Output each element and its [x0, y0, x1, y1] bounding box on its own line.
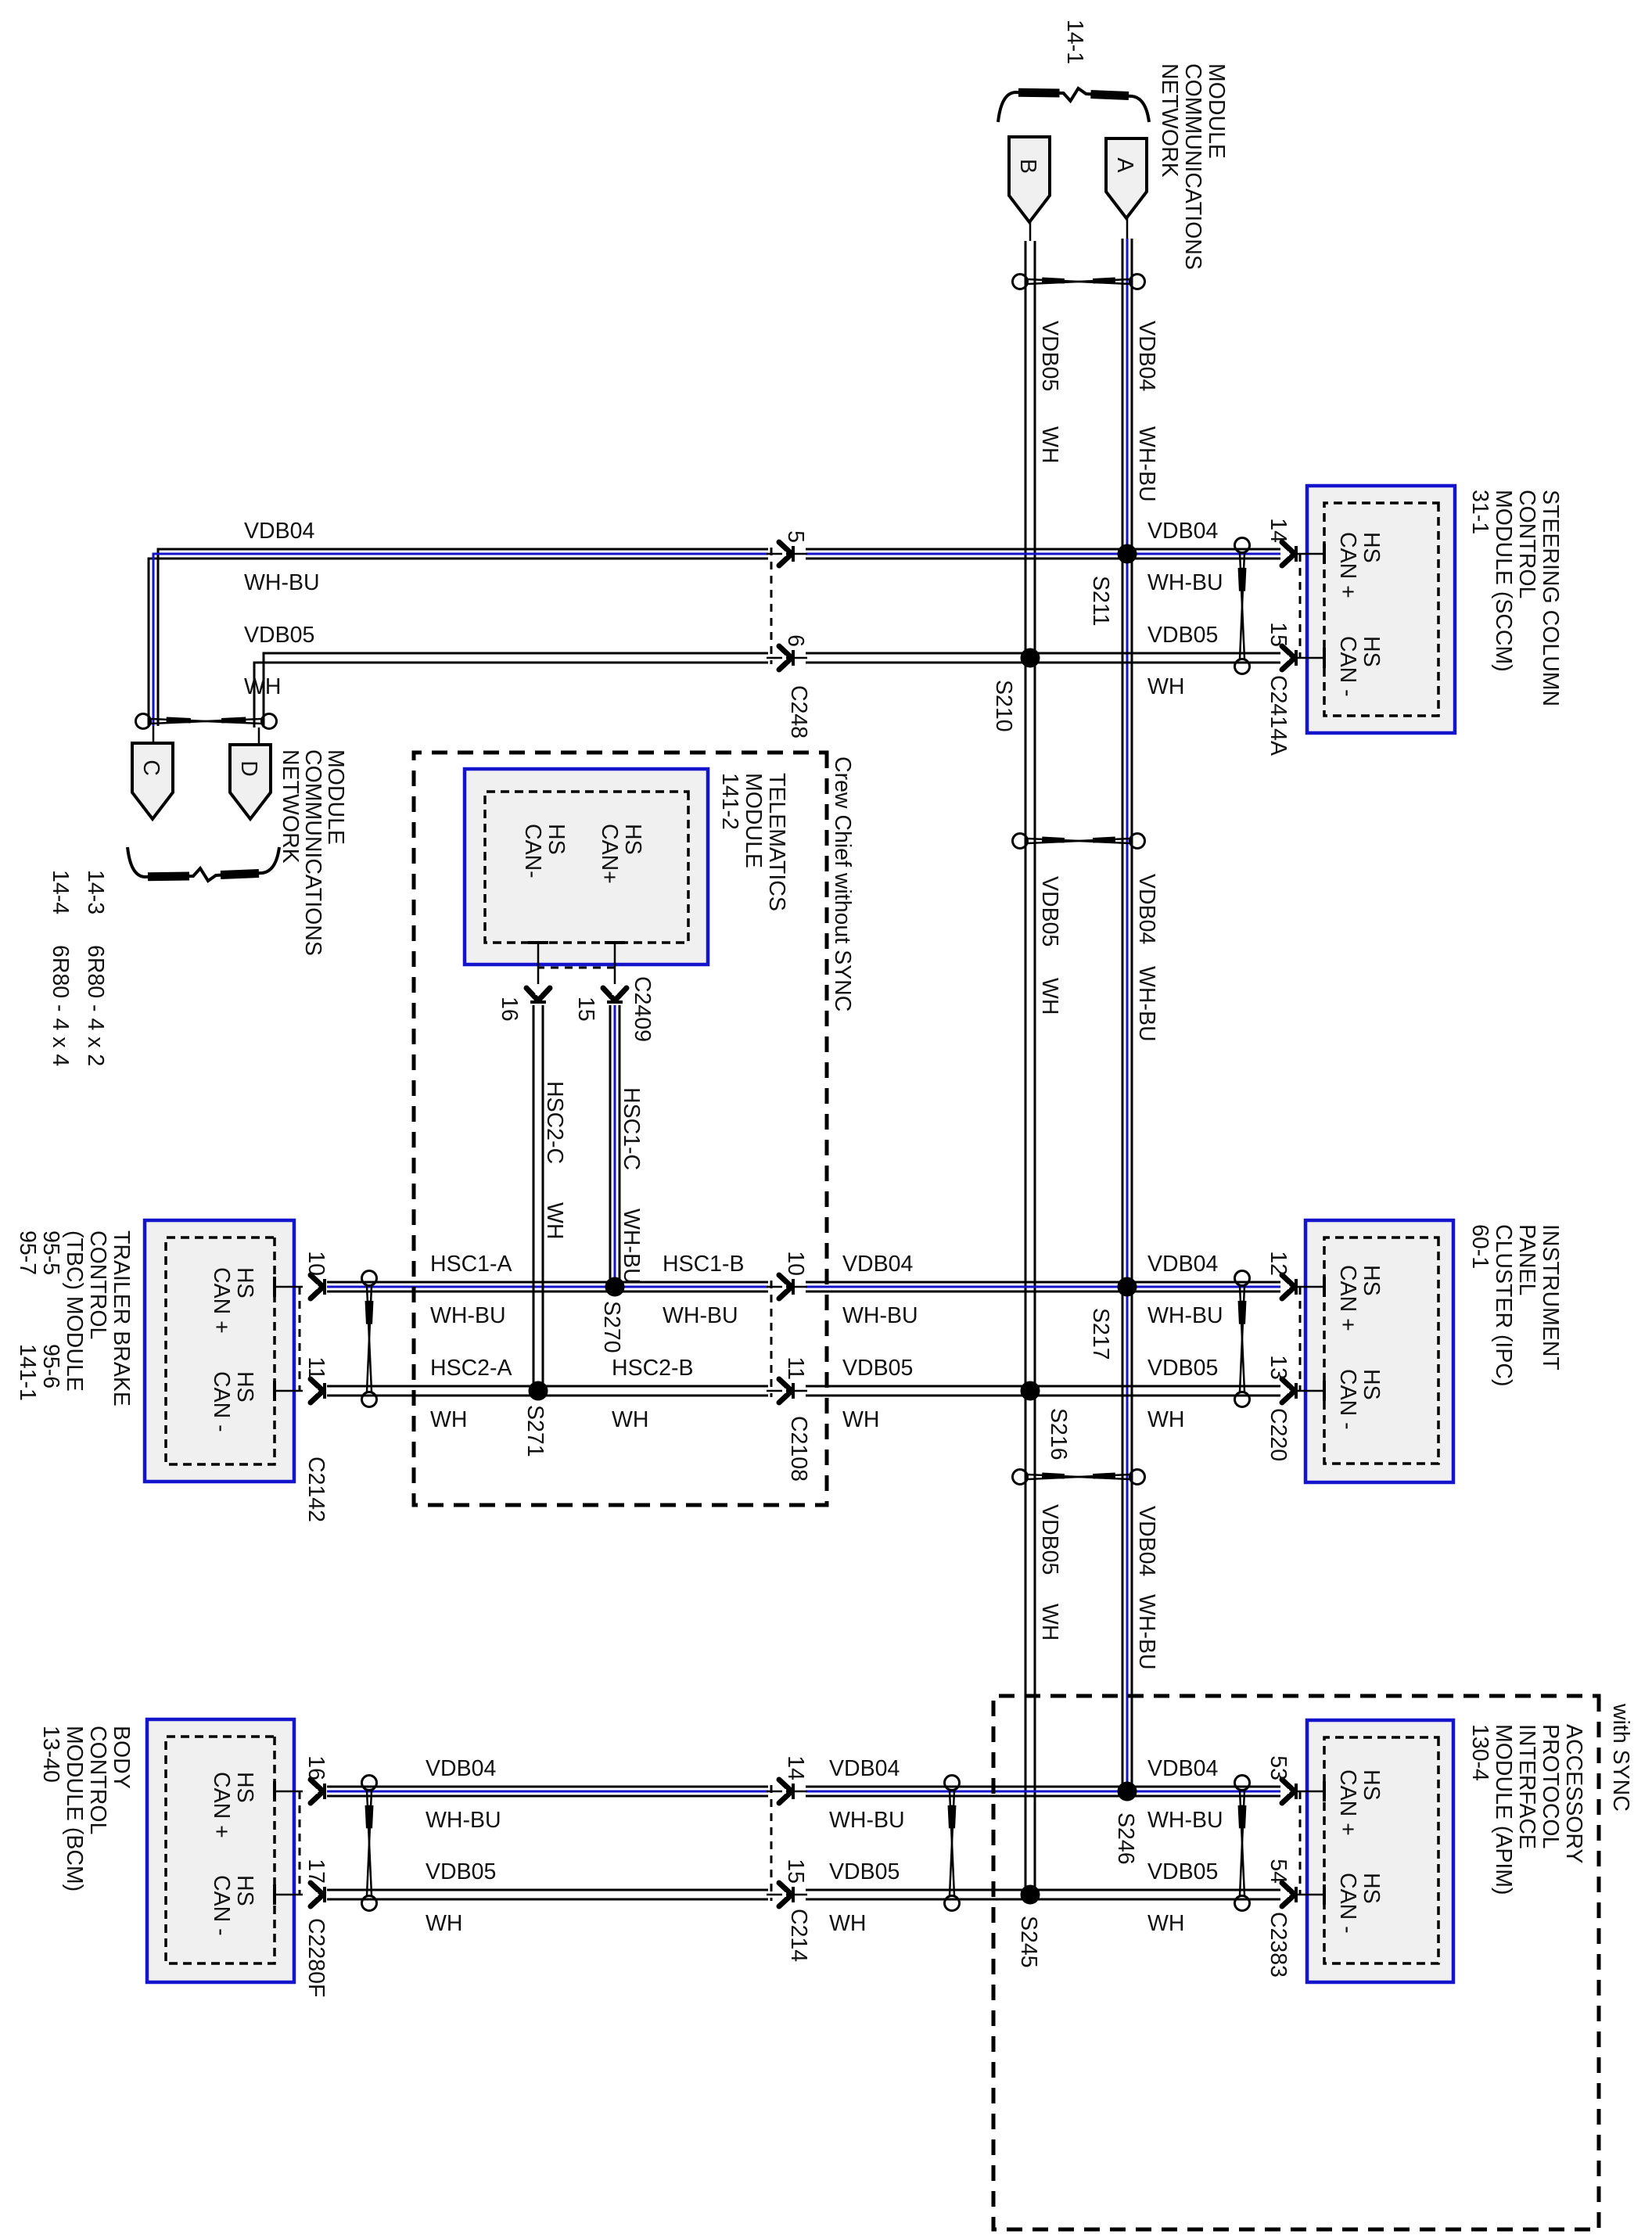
- svg-text:60-1: 60-1: [1467, 1224, 1492, 1269]
- svg-text:HSC1-B: HSC1-B: [663, 1252, 745, 1277]
- svg-text:C214: C214: [786, 1909, 811, 1962]
- label IPC HS CAN+: [1335, 1265, 1384, 1331]
- svg-text:HS: HS: [1359, 1769, 1384, 1801]
- junction S216: [1021, 1381, 1040, 1401]
- dashed box Crew Chief without SYNC: [414, 753, 827, 1505]
- svg-text:VDB05: VDB05: [1147, 1859, 1218, 1884]
- offpage connector C: [132, 743, 173, 819]
- svg-text:WH-BU: WH-BU: [1147, 1303, 1223, 1328]
- label TBC title: [15, 1230, 134, 1406]
- svg-text:with SYNC: with SYNC: [1608, 1703, 1633, 1812]
- twisted pair symbol SCCM taps: [1235, 538, 1250, 674]
- svg-text:WH-BU: WH-BU: [663, 1303, 738, 1328]
- label Crew Chief without SYNC: [830, 756, 855, 1011]
- label IPC title: [1467, 1224, 1563, 1386]
- label S216: [1046, 1408, 1071, 1460]
- twisted pair symbol APIM taps: [1235, 1776, 1250, 1911]
- svg-text:CAN +: CAN +: [1335, 1265, 1360, 1331]
- svg-text:HS: HS: [232, 1875, 257, 1906]
- twisted pair symbol IPC taps: [1235, 1271, 1250, 1407]
- label VDB05 WH SCCM tap upper: [1147, 623, 1218, 699]
- wire VDB04 vertical APIM pin53 to BCM pin16: [327, 1787, 1280, 1796]
- svg-text:PANEL: PANEL: [1514, 1224, 1539, 1295]
- label pin 15 SCCM: [1266, 622, 1291, 647]
- pin arrow IPC x1645: [1282, 1275, 1296, 1299]
- connector line C220: [1299, 1287, 1302, 1391]
- pin stub TBC x1778: [275, 1381, 303, 1401]
- svg-text:CAN-: CAN-: [520, 824, 545, 878]
- svg-text:HSC2-B: HSC2-B: [612, 1356, 694, 1381]
- svg-text:5: 5: [783, 530, 808, 543]
- label Telematics title: [717, 773, 789, 911]
- label module communications network top: [1157, 63, 1229, 270]
- svg-text:VDB05: VDB05: [1037, 1504, 1062, 1575]
- svg-text:14-4: 14-4: [48, 870, 73, 914]
- label HSC2-B WH segment C2108-S271: [612, 1356, 694, 1432]
- label VDB04 WH-BU segment C214-BCM: [426, 1756, 501, 1833]
- label S210: [991, 680, 1016, 732]
- svg-text:CLUSTER (IPC): CLUSTER (IPC): [1491, 1224, 1516, 1386]
- twisted pair symbol before C/D: [136, 714, 277, 729]
- svg-text:95-5: 95-5: [38, 1230, 63, 1275]
- connector line C214: [770, 1785, 773, 1901]
- pin arrow SCCM x841: [1282, 646, 1296, 670]
- module Telematics box: [465, 769, 708, 965]
- svg-text:S270: S270: [599, 1301, 624, 1353]
- svg-text:54: 54: [1266, 1859, 1291, 1884]
- twisted pair symbol buses after S217/S216: [1013, 1470, 1145, 1485]
- label pin 5 C248: [783, 530, 808, 543]
- harness brace at C/D: [127, 847, 279, 881]
- pin gap C248 x841: [767, 651, 807, 665]
- label VDB04 WH-BU segment S217-S246: [1134, 1506, 1159, 1670]
- harness brace at A/B: [998, 88, 1149, 122]
- pin arrow C214 x2422: [779, 1883, 793, 1906]
- svg-text:WH-BU: WH-BU: [244, 570, 320, 595]
- svg-text:NETWORK: NETWORK: [278, 749, 303, 864]
- svg-text:VDB05: VDB05: [842, 1356, 913, 1381]
- wire stub at A: [1126, 218, 1129, 239]
- label pin 11 C2108: [783, 1356, 808, 1380]
- label pin 14 SCCM: [1266, 518, 1291, 543]
- svg-text:WH-BU: WH-BU: [1147, 1808, 1223, 1833]
- offpage connector A: [1106, 138, 1147, 218]
- pin arrow C2108 x1778: [779, 1379, 793, 1403]
- twisted pair symbol TBC taps: [362, 1271, 377, 1407]
- svg-text:VDB05: VDB05: [1147, 623, 1218, 648]
- wire stub at B: [1029, 222, 1032, 241]
- pin arrow C214 x2290: [779, 1780, 793, 1803]
- svg-text:C2409: C2409: [630, 976, 655, 1042]
- svg-text:HSC2-A: HSC2-A: [430, 1356, 512, 1381]
- svg-text:10: 10: [303, 1251, 329, 1276]
- svg-text:B: B: [1015, 159, 1040, 174]
- label C214: [786, 1909, 811, 1962]
- svg-text:VDB05: VDB05: [1037, 876, 1062, 947]
- svg-text:95-6: 95-6: [38, 1344, 63, 1388]
- pin stub APIM x2422: [1295, 1884, 1324, 1905]
- svg-text:C2280F: C2280F: [303, 1918, 329, 1997]
- wire HSC2 vertical IPC pin13 to TBC pin11: [327, 1386, 1280, 1396]
- svg-text:WH: WH: [542, 1202, 567, 1239]
- twisted pair symbol buses mid: [1013, 834, 1145, 849]
- svg-text:C2142: C2142: [303, 1457, 329, 1522]
- pin arrow SCCM x708: [1282, 542, 1296, 566]
- svg-text:S211: S211: [1088, 576, 1113, 626]
- svg-text:MODULE: MODULE: [1204, 63, 1229, 159]
- dashed box with SYNC: [993, 1696, 1599, 2229]
- svg-text:VDB05: VDB05: [426, 1859, 496, 1884]
- connector line C2409: [538, 967, 615, 969]
- label APIM title: [1467, 1724, 1586, 1895]
- junction S245: [1021, 1885, 1040, 1905]
- svg-text:CAN -: CAN -: [1335, 1369, 1360, 1430]
- svg-text:CAN -: CAN -: [1335, 1873, 1360, 1934]
- wire HSC1-C telematics pin15 to S270: [610, 1005, 619, 1287]
- svg-text:141-2: 141-2: [717, 773, 742, 830]
- svg-text:C: C: [138, 760, 163, 776]
- svg-text:WH: WH: [842, 1407, 879, 1432]
- svg-text:WH: WH: [1037, 978, 1062, 1015]
- svg-text:C248: C248: [786, 685, 811, 738]
- label pin 15 C214: [783, 1859, 808, 1884]
- pin gap C248 x708: [767, 547, 807, 561]
- label S270: [599, 1301, 624, 1353]
- pin arrow BCM x2290: [311, 1780, 325, 1803]
- connector line C2142: [299, 1287, 301, 1391]
- label VDB05 WH segment B-S210: [1037, 321, 1062, 463]
- label module communications network bottom: [278, 749, 348, 956]
- module IPC box: [1305, 1220, 1453, 1482]
- label with SYNC: [1608, 1703, 1633, 1812]
- label VDB05 WH segment C214-BCM: [426, 1859, 496, 1936]
- svg-text:16: 16: [303, 1755, 329, 1780]
- pin arrow BCM x2422: [311, 1883, 325, 1906]
- label S245: [1016, 1916, 1041, 1968]
- svg-text:HS: HS: [1359, 1265, 1384, 1296]
- label Telematics HS CAN+: [597, 824, 645, 884]
- svg-text:HS: HS: [1359, 1873, 1384, 1904]
- pin arrow C248 x841: [779, 646, 793, 670]
- label BCM title: [38, 1726, 134, 1891]
- svg-text:11: 11: [303, 1356, 329, 1380]
- pin gap C214 x2422: [767, 1888, 807, 1902]
- label pin 10 C2108: [783, 1251, 808, 1276]
- svg-text:CAN+: CAN+: [597, 824, 622, 884]
- junction S210: [1021, 648, 1040, 668]
- pin arrow TBC x1778: [311, 1379, 325, 1403]
- svg-text:WH: WH: [1147, 1911, 1184, 1936]
- label SCCM HS CAN+: [1335, 532, 1384, 598]
- svg-text:S271: S271: [523, 1405, 548, 1457]
- svg-text:A: A: [1112, 157, 1137, 172]
- label IPC HS CAN-: [1335, 1369, 1384, 1430]
- svg-text:VDB05: VDB05: [1037, 321, 1062, 391]
- label APIM HS CAN-: [1335, 1873, 1384, 1934]
- label VDB04 WH-BU SCCM tap lower: [244, 519, 320, 595]
- svg-text:WH: WH: [1037, 426, 1062, 463]
- pin arrow IPC x1778: [1282, 1379, 1296, 1403]
- svg-text:130-4: 130-4: [1467, 1724, 1492, 1781]
- label pin 54 APIM: [1266, 1859, 1291, 1884]
- svg-text:14-3: 14-3: [83, 870, 108, 914]
- svg-text:HS: HS: [232, 1371, 257, 1403]
- wire VDB05 bus (WH) from connector B: [1025, 241, 1035, 1895]
- label C248: [786, 685, 811, 738]
- label pin 15 Telematics: [573, 997, 598, 1022]
- svg-text:VDB04: VDB04: [1147, 519, 1218, 544]
- label VDB05 WH IPC tap: [1147, 1356, 1218, 1432]
- svg-text:VDB04: VDB04: [1134, 874, 1159, 944]
- label VDB05 WH segment S245-C214: [829, 1859, 900, 1936]
- svg-text:ACCESSORY: ACCESSORY: [1561, 1724, 1586, 1863]
- label BCM HS CAN+: [209, 1772, 257, 1838]
- svg-text:13-40: 13-40: [38, 1726, 63, 1783]
- svg-text:31-1: 31-1: [1467, 490, 1492, 534]
- svg-text:WH: WH: [1147, 1407, 1184, 1432]
- svg-text:(TBC) MODULE: (TBC) MODULE: [62, 1230, 87, 1392]
- svg-text:PROTOCOL: PROTOCOL: [1538, 1724, 1563, 1848]
- svg-text:MODULE (SCCM): MODULE (SCCM): [1491, 490, 1516, 672]
- svg-text:95-7: 95-7: [15, 1230, 40, 1275]
- svg-text:WH: WH: [1037, 1604, 1062, 1640]
- connector line C2414A: [1299, 554, 1302, 658]
- svg-text:VDB04: VDB04: [842, 1252, 913, 1277]
- junction S217: [1118, 1277, 1137, 1297]
- label C2409: [630, 976, 655, 1042]
- svg-text:S245: S245: [1016, 1916, 1041, 1968]
- module SCCM box: [1307, 486, 1455, 733]
- svg-text:CAN +: CAN +: [209, 1772, 234, 1838]
- twisted pair symbol BCM taps: [362, 1776, 377, 1911]
- svg-text:S216: S216: [1046, 1408, 1071, 1460]
- pin gap C214 x2290: [767, 1784, 807, 1798]
- svg-text:VDB04: VDB04: [1147, 1252, 1218, 1277]
- label C2280F: [303, 1918, 329, 1997]
- pin arrow Telematics pin16: [526, 988, 550, 1002]
- svg-text:WH-BU: WH-BU: [1147, 570, 1223, 595]
- svg-text:S246: S246: [1113, 1812, 1138, 1865]
- svg-text:VDB04: VDB04: [1147, 1756, 1218, 1781]
- svg-text:WH-BU: WH-BU: [1134, 426, 1159, 502]
- label C220: [1266, 1408, 1291, 1461]
- svg-text:VDB05: VDB05: [244, 623, 314, 648]
- svg-text:INTERFACE: INTERFACE: [1514, 1724, 1539, 1849]
- junction S211: [1118, 544, 1137, 564]
- svg-text:CAN -: CAN -: [209, 1371, 234, 1432]
- svg-text:12: 12: [1266, 1251, 1291, 1276]
- label Telematics HS CAN-: [520, 824, 569, 878]
- svg-text:NETWORK: NETWORK: [1157, 63, 1182, 178]
- label VDB04 WH-BU APIM tap: [1147, 1756, 1223, 1833]
- svg-text:HSC2-C: HSC2-C: [542, 1081, 567, 1164]
- pin stub BCM x2290: [275, 1781, 303, 1802]
- pin stub TBC x1645: [275, 1277, 303, 1297]
- offpage connector B: [1009, 137, 1050, 222]
- svg-text:HS: HS: [620, 824, 645, 855]
- label HSC2-A WH segment S271-TBC: [430, 1356, 512, 1432]
- label S217: [1088, 1308, 1113, 1360]
- pin arrow Telematics pin15: [603, 988, 627, 1002]
- svg-text:CONTROL: CONTROL: [1514, 490, 1539, 598]
- svg-text:MODULE: MODULE: [741, 773, 766, 868]
- svg-text:HSC1-A: HSC1-A: [430, 1252, 512, 1277]
- connector line C2383: [1299, 1791, 1302, 1895]
- svg-text:WH: WH: [1147, 674, 1184, 699]
- label pin 16 BCM: [303, 1755, 329, 1780]
- label TBC HS CAN-: [209, 1371, 257, 1432]
- svg-text:INSTRUMENT: INSTRUMENT: [1538, 1224, 1563, 1370]
- label C2142: [303, 1457, 329, 1522]
- svg-text:MODULE (APIM): MODULE (APIM): [1491, 1724, 1516, 1895]
- pin stub Telematics pin15: [605, 943, 625, 984]
- svg-text:VDB05: VDB05: [829, 1859, 900, 1884]
- svg-text:VDB04: VDB04: [426, 1756, 496, 1781]
- svg-text:TELEMATICS: TELEMATICS: [764, 773, 789, 911]
- svg-text:COMMUNICATIONS: COMMUNICATIONS: [1180, 63, 1205, 270]
- label 14-4 6R80-4x4: [48, 870, 73, 1066]
- svg-text:10: 10: [783, 1251, 808, 1276]
- svg-text:WH: WH: [426, 1911, 462, 1936]
- label 14-1: [1062, 20, 1087, 64]
- svg-text:11: 11: [783, 1356, 808, 1380]
- svg-text:VDB04: VDB04: [829, 1756, 900, 1781]
- svg-text:TRAILER BRAKE: TRAILER BRAKE: [109, 1230, 134, 1406]
- svg-text:HS: HS: [232, 1267, 257, 1299]
- connector line C2280F: [299, 1791, 301, 1895]
- svg-text:VDB05: VDB05: [1147, 1356, 1218, 1381]
- label VDB04 WH-BU SCCM tap upper: [1147, 519, 1223, 595]
- label BCM HS CAN-: [209, 1875, 257, 1936]
- label VDB04 WH-BU segment S246-C214: [829, 1756, 905, 1833]
- label VDB04 WH-BU segment S211-S217: [1134, 874, 1159, 1042]
- svg-text:CONTROL: CONTROL: [85, 1726, 110, 1834]
- pin gap C2108 x1778: [767, 1384, 807, 1398]
- pin stub Telematics pin16: [528, 943, 548, 984]
- svg-text:C2383: C2383: [1266, 1912, 1291, 1978]
- svg-text:WH-BU: WH-BU: [426, 1808, 501, 1833]
- svg-text:WH-BU: WH-BU: [619, 1209, 644, 1284]
- pin arrow APIM x2422: [1282, 1883, 1296, 1906]
- label C2108: [786, 1416, 811, 1482]
- svg-text:MODULE (BCM): MODULE (BCM): [62, 1726, 87, 1891]
- pin stub IPC x1645: [1295, 1277, 1324, 1297]
- label VDB04 WH-BU segment S217-C2108: [842, 1252, 918, 1328]
- junction S270: [605, 1277, 625, 1297]
- label VDB05 WH SCCM tap lower: [244, 623, 314, 699]
- label HSC1-C WH-BU: [619, 1087, 644, 1284]
- svg-text:WH: WH: [430, 1407, 467, 1432]
- module APIM box: [1307, 1720, 1453, 1982]
- svg-text:141-1: 141-1: [15, 1344, 40, 1401]
- svg-text:C2108: C2108: [786, 1416, 811, 1482]
- svg-text:CAN -: CAN -: [1335, 636, 1360, 697]
- svg-text:6: 6: [783, 634, 808, 647]
- label pin 11 TBC: [303, 1356, 329, 1380]
- connector line C2108: [770, 1281, 773, 1397]
- label pin 16 Telematics: [497, 997, 522, 1022]
- label VDB04 WH-BU segment A-S211: [1134, 321, 1159, 502]
- label HSC2-C WH: [542, 1081, 567, 1239]
- svg-text:WH-BU: WH-BU: [842, 1303, 918, 1328]
- svg-text:CAN +: CAN +: [1335, 532, 1360, 598]
- svg-text:53: 53: [1266, 1755, 1291, 1780]
- svg-text:WH-BU: WH-BU: [1134, 1594, 1159, 1670]
- label HSC1-B WH-BU segment C2108-S270: [663, 1252, 745, 1328]
- svg-text:WH: WH: [612, 1407, 648, 1432]
- label S246: [1113, 1812, 1138, 1865]
- pin stub BCM x2422: [275, 1884, 303, 1905]
- module BCM box: [147, 1719, 294, 1982]
- svg-text:VDB04: VDB04: [1134, 1506, 1159, 1576]
- label VDB05 WH segment S216-C2108: [842, 1356, 913, 1432]
- svg-text:HS: HS: [1359, 1369, 1384, 1400]
- svg-text:CAN +: CAN +: [209, 1267, 234, 1334]
- label pin 53 APIM: [1266, 1755, 1291, 1780]
- pin stub SCCM x708: [1295, 544, 1324, 564]
- wire HSC1 vertical IPC pin12 to TBC pin10: [327, 1282, 1280, 1291]
- label VDB05 WH APIM tap: [1147, 1859, 1218, 1936]
- svg-text:WH: WH: [244, 674, 281, 699]
- svg-text:15: 15: [783, 1859, 808, 1884]
- wire VDB05 SCCM pin15 tap / to connector D: [254, 653, 1280, 745]
- svg-text:13: 13: [1266, 1355, 1291, 1380]
- label VDB04 WH-BU IPC tap: [1147, 1252, 1223, 1328]
- svg-text:VDB04: VDB04: [244, 519, 314, 544]
- svg-text:D: D: [236, 760, 261, 777]
- twisted pair symbol BCM taps upper: [945, 1776, 960, 1911]
- svg-text:S217: S217: [1088, 1308, 1113, 1360]
- wire VDB05 vertical APIM pin54 to BCM pin17: [327, 1890, 1280, 1899]
- svg-text:CONTROL: CONTROL: [85, 1230, 110, 1339]
- pin arrow TBC x1645: [311, 1275, 325, 1299]
- svg-text:WH-BU: WH-BU: [1134, 966, 1159, 1042]
- wire VDB04 bus (WH-BU) from connector A: [1122, 239, 1132, 1791]
- wire VDB04 SCCM pin14 tap / to connector C: [149, 549, 1280, 744]
- svg-text:6R80 - 4 x 4: 6R80 - 4 x 4: [48, 945, 73, 1066]
- svg-text:S210: S210: [991, 680, 1016, 732]
- label S211: [1088, 576, 1113, 626]
- svg-text:WH: WH: [829, 1911, 866, 1936]
- svg-text:14-1: 14-1: [1062, 20, 1087, 64]
- label pin 10 TBC: [303, 1251, 329, 1276]
- wire HSC2-C telematics pin16 to S271: [533, 1005, 543, 1391]
- svg-text:6R80 - 4 x 2: 6R80 - 4 x 2: [83, 945, 108, 1066]
- svg-text:15: 15: [1266, 622, 1291, 647]
- pin stub IPC x1778: [1295, 1381, 1324, 1401]
- pin stub APIM x2290: [1295, 1781, 1324, 1802]
- pin gap C2108 x1645: [767, 1280, 807, 1294]
- svg-text:MODULE: MODULE: [323, 749, 348, 845]
- svg-text:HS: HS: [232, 1772, 257, 1803]
- svg-text:Crew Chief without SYNC: Crew Chief without SYNC: [830, 756, 855, 1011]
- svg-text:16: 16: [497, 997, 522, 1022]
- svg-text:17: 17: [303, 1859, 329, 1884]
- pin arrow C248 x708: [779, 542, 793, 566]
- svg-text:14: 14: [783, 1755, 808, 1780]
- label 14-3 6R80-4x2: [83, 870, 108, 1066]
- pin stub SCCM x841: [1295, 648, 1324, 668]
- svg-text:VDB04: VDB04: [1134, 321, 1159, 391]
- label pin 6 C248: [783, 634, 808, 647]
- label S271: [523, 1405, 548, 1457]
- svg-text:C220: C220: [1266, 1408, 1291, 1461]
- svg-text:C2414A: C2414A: [1266, 675, 1291, 756]
- label C2414A: [1266, 675, 1291, 756]
- pin arrow APIM x2290: [1282, 1780, 1296, 1803]
- svg-text:HSC1-C: HSC1-C: [619, 1087, 644, 1170]
- connector line C248: [770, 548, 773, 664]
